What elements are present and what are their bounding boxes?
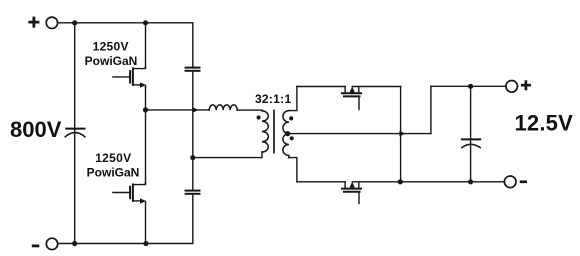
wire resonant cap branch upper (192, 23, 194, 67)
transistor Q2 (lower 1250V PowiGaN) (113, 183, 146, 204)
junction top rail / input + (72, 20, 77, 25)
junction top rail / half-bridge drain (143, 20, 148, 25)
wire primary return (193, 152, 262, 158)
wire top SR rail (drain side) (297, 86, 345, 88)
wire switch-node rail (146, 109, 210, 111)
polarity dot secondary bottom (290, 136, 294, 140)
wire output cap branch (470, 86, 472, 182)
output + terminal (506, 80, 531, 92)
junction SR sources (398, 179, 403, 184)
capacitor Cout (462, 139, 480, 147)
transistor Q1 (upper 1250V PowiGaN) (113, 67, 146, 88)
svg-text:PowiGaN: PowiGaN (87, 165, 140, 179)
input + terminal (28, 17, 57, 29)
svg-text:1250V: 1250V (93, 40, 129, 54)
junction output cap bottom (468, 179, 473, 184)
inductor Lr (209, 105, 237, 110)
wire half-bridge mid segment (145, 87, 147, 110)
svg-text:800V: 800V (10, 117, 62, 142)
wire secondary bottom lead (289, 158, 297, 182)
wire bottom SR rail (drain side) (297, 181, 345, 183)
svg-text:12.5V: 12.5V (515, 111, 574, 136)
junction secondary center tap (285, 131, 290, 136)
polarity dot secondary top (289, 116, 293, 120)
wire SR source drop (400, 87, 402, 182)
capacitor Cr1 (upper divider) (186, 68, 200, 71)
polarity dot primary (257, 115, 261, 119)
arrow on center tap rail (400, 131, 405, 136)
junction switch node (143, 107, 148, 112)
transformer T1 secondary bottom winding (283, 134, 289, 158)
wire left rail (74, 23, 76, 244)
wire half-bridge lower mid segment (145, 110, 147, 185)
transformer core (273, 110, 275, 152)
svg-text:32:1:1: 32:1:1 (255, 92, 292, 106)
output - terminal (504, 176, 527, 188)
capacitor Cr2 (lower divider) (186, 191, 200, 194)
input - terminal (32, 238, 58, 249)
wire inductor to primary (237, 109, 262, 111)
transformer T1 primary winding (262, 111, 268, 152)
svg-text:1250V: 1250V (95, 151, 131, 165)
wire center tap rail (289, 133, 431, 135)
transistor SR2 (bottom sync rect) (342, 182, 361, 204)
capacitor Cin (800V bulk) (65, 129, 85, 137)
wire bottom SR rail (source side) (352, 181, 504, 183)
wire bottom rail (58, 243, 193, 245)
wire top SR rail (source side) (352, 86, 400, 88)
junction output cap top (468, 84, 473, 89)
wire output top rail (431, 85, 506, 87)
arrow on switch-node wire (193, 108, 198, 113)
wire center tap riser (430, 86, 432, 133)
wire top rail (58, 22, 193, 24)
junction bottom rail / input - (72, 241, 77, 246)
wire resonant cap branch lower (192, 194, 194, 243)
junction bottom rail / half-bridge source (143, 241, 148, 246)
transistor SR1 (top sync rect) (342, 87, 361, 110)
junction cap divider midpoint (190, 155, 195, 160)
wire half-bridge drain segment (145, 23, 147, 69)
wire secondary top lead (289, 87, 297, 111)
wire resonant cap branch middle (192, 71, 194, 190)
wire half-bridge source segment (145, 201, 147, 243)
transformer T1 secondary top winding (283, 111, 289, 134)
svg-text:PowiGaN: PowiGaN (85, 54, 138, 68)
